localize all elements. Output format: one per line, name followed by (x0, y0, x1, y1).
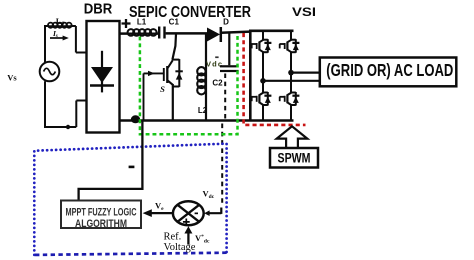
inductor Ls (48, 23, 72, 28)
inductor L1 (128, 29, 157, 36)
minus label on feedback wire (129, 166, 135, 169)
svg-text:(GRID OR) AC LOAD: (GRID OR) AC LOAD (326, 60, 453, 80)
svg-text:C1: C1 (169, 18, 180, 27)
leg B middle (290, 52, 292, 93)
SPWM block arrow (277, 126, 308, 148)
svg-text:S: S (160, 84, 165, 94)
current arrow Is (50, 37, 64, 39)
wire L1 to C1 (155, 32, 158, 35)
feedback wire from rail to MPPT (79, 121, 143, 201)
Vdc arrow into summer (209, 208, 221, 214)
minus at summer right (195, 213, 198, 215)
plus at summer bottom (183, 219, 190, 226)
blue dotted boundary control (34, 144, 226, 255)
svg-text:VSI: VSI (292, 5, 316, 19)
gate feed vertical (143, 73, 145, 120)
svg-text:DBR: DBR (84, 0, 113, 17)
leg A bottom lead (262, 105, 264, 121)
wire: top to inductor Ls (44, 25, 49, 27)
capacitor C2 branch wire (228, 34, 230, 66)
wire: source top vertical (44, 26, 46, 62)
IGBT Q4 bottom-right (279, 92, 299, 106)
wire: source bottom vertical (44, 81, 46, 127)
svg-text:C2: C2 (212, 79, 223, 88)
svg-text:ALGORITHM: ALGORITHM (75, 218, 127, 230)
VSI output upper line (291, 71, 320, 73)
leg A top lead (262, 31, 264, 40)
capacitor C2 plates (220, 65, 239, 67)
leg A middle (262, 52, 264, 93)
AC source Vs (40, 62, 60, 82)
MPPT box (61, 201, 141, 229)
leg B top lead (290, 31, 292, 40)
green dashed boundary SEPIC (140, 33, 238, 134)
junction dot bottom rail (131, 115, 140, 123)
capacitor C1 (159, 27, 164, 39)
IGBT Q2 top-right (279, 39, 299, 53)
Ref voltage arrow (187, 233, 189, 245)
top rail D to VSI (221, 32, 250, 33)
switch S (IGBT with diode) (164, 59, 183, 87)
gate wire with arrow (144, 72, 164, 74)
AC load box (320, 58, 457, 87)
Vdc sense dashed line upper (224, 74, 226, 120)
node dot leg B (288, 70, 294, 76)
top rail C1 to diode D (166, 32, 207, 35)
switch S emitter wire to rail (172, 84, 174, 121)
svg-text:Vs: Vs (7, 73, 17, 83)
svg-text:D: D (223, 18, 229, 27)
inductor L2 bottom wire (205, 93, 207, 121)
svg-text:L1: L1 (137, 18, 147, 27)
svg-text:SEPIC CONVERTER: SEPIC CONVERTER (129, 4, 251, 21)
IGBT Q3 bottom-left (251, 92, 271, 106)
bottom rail (120, 119, 294, 122)
minus above Vdc (215, 56, 218, 58)
inductor L2 coil (197, 67, 206, 94)
switch branch drop wire (172, 34, 176, 60)
top rail from DBR to L1 (120, 32, 129, 35)
VSI left rail (249, 30, 252, 122)
junction dot on bottom wire (66, 125, 70, 129)
summing junction (173, 201, 204, 225)
SPWM box (270, 148, 318, 168)
plus sign at DBR output (122, 19, 131, 28)
svg-text:Vdc: Vdc (206, 60, 222, 69)
IGBT Q1 top-left (251, 39, 271, 53)
VSI top rail (249, 29, 294, 32)
svg-text:MPPT FUZZY LOGIC: MPPT FUZZY LOGIC (66, 206, 137, 218)
DBR diode (90, 51, 114, 93)
svg-text:Ref.: Ref. (164, 232, 182, 243)
red dashed gate feedback line (244, 33, 306, 125)
diode D (207, 28, 220, 42)
svg-text:Voltage: Voltage (164, 242, 196, 253)
inductor L2 branch top wire (205, 34, 207, 69)
svg-text:SPWM: SPWM (278, 150, 311, 165)
Vdc sense dashed line lower (221, 124, 223, 207)
DBR box (87, 21, 120, 133)
wire: bottom to DBR jog (44, 101, 87, 128)
svg-text:L2: L2 (198, 106, 208, 115)
node dot leg A (260, 78, 266, 84)
wire: Ls to DBR top jog (71, 26, 87, 53)
Ve arrow to MPPT (150, 212, 173, 214)
VSI output lower line (263, 80, 320, 82)
leg B bottom lead (290, 105, 292, 121)
